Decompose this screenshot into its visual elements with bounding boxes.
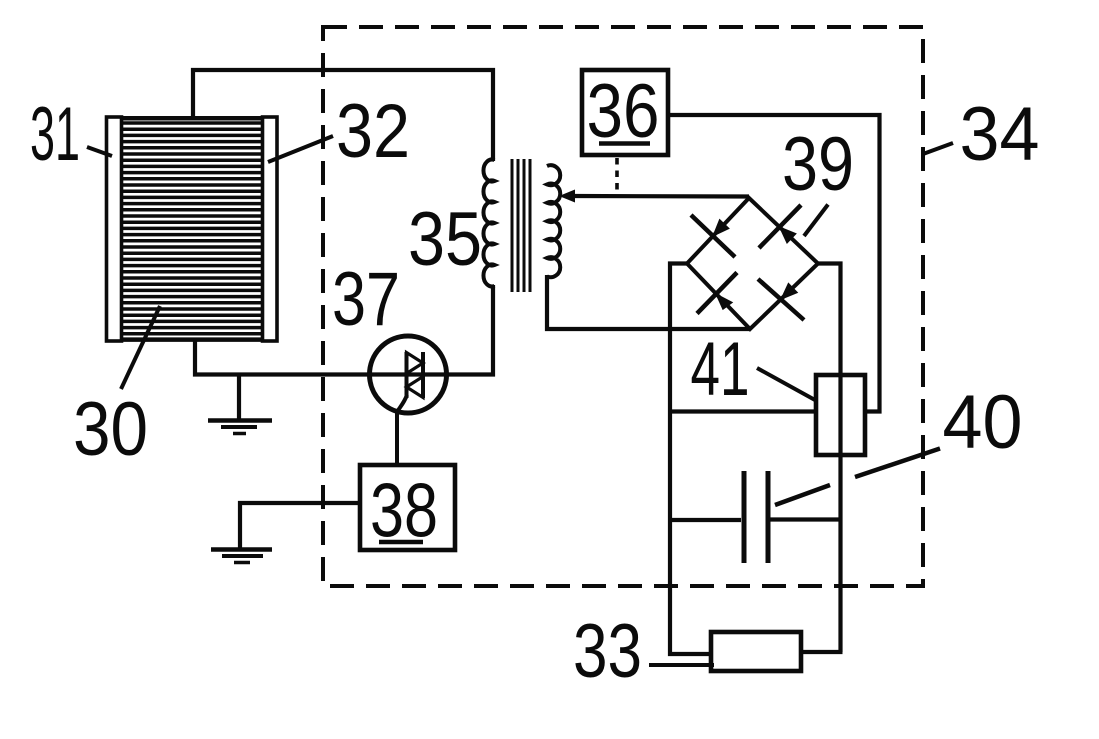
diode D4 (bridge 39 bottom-right) xyxy=(758,279,804,320)
leader for 31 xyxy=(87,147,112,156)
diode D3 (bridge 39 bottom-left) xyxy=(697,273,737,314)
svg-text:39: 39 xyxy=(782,122,854,207)
svg-text:41: 41 xyxy=(691,327,750,412)
resistor 33 xyxy=(711,632,801,671)
wire stack bottom to transistor and transformer primary bottom xyxy=(195,285,493,375)
transformer 35 primary winding xyxy=(483,160,494,287)
label 36 xyxy=(587,69,660,154)
transformer 35 core xyxy=(512,159,530,292)
ground (near box 38) xyxy=(211,550,272,563)
svg-text:31: 31 xyxy=(30,92,80,177)
wire box 36 to element 41 xyxy=(668,115,880,412)
wire secondary bottom to bridge bottom vertex xyxy=(547,275,750,329)
label 32 xyxy=(336,89,410,174)
diode D2 (bridge 39 top-right) xyxy=(759,205,801,248)
svg-text:32: 32 xyxy=(336,89,410,174)
label 38 xyxy=(370,469,438,554)
label 31 xyxy=(30,92,80,177)
tap arrow on secondary xyxy=(559,190,575,203)
leader for 39 xyxy=(804,205,828,237)
diode D1 (bridge 39 top-left) xyxy=(691,215,735,257)
label 30 xyxy=(73,387,148,472)
dashed control line from box 36 to tap xyxy=(615,158,619,194)
wire bridge right vertex down through element 41 xyxy=(818,264,841,653)
svg-text:30: 30 xyxy=(73,387,148,472)
label 40 xyxy=(943,380,1023,465)
transistor 37 (switching element) xyxy=(370,336,447,465)
capacitor 40 xyxy=(670,471,841,563)
leader for 33 xyxy=(649,663,714,667)
leader for 41 xyxy=(757,368,815,400)
bridge rectifier 39 (diamond) xyxy=(687,198,818,329)
leader for 32 xyxy=(268,136,333,162)
electrode 31 (left bar of stack) xyxy=(107,117,122,341)
wire stack top to transformer primary top xyxy=(193,70,493,161)
svg-text:33: 33 xyxy=(573,609,642,694)
electrode 32 (right bar of stack) xyxy=(263,117,278,341)
leader for 34 xyxy=(923,143,953,154)
control box 38 xyxy=(360,465,455,550)
svg-text:40: 40 xyxy=(943,380,1023,465)
label 41 xyxy=(691,327,750,412)
leader for 40 xyxy=(775,449,940,506)
element 41 (sensor box) xyxy=(816,375,865,455)
control box 36 xyxy=(582,70,668,155)
stack 30 (hatched body) xyxy=(121,118,264,339)
label 35 xyxy=(408,197,482,282)
transformer 35 secondary winding xyxy=(547,165,560,277)
wire tap to bridge top vertex xyxy=(573,194,749,199)
wire resistor right to vertical xyxy=(801,650,843,654)
wire node to element 41 left xyxy=(670,409,816,413)
wire bridge left vertex down to resistor xyxy=(670,264,711,655)
svg-text:37: 37 xyxy=(332,257,400,342)
label 39 xyxy=(782,122,854,207)
svg-text:34: 34 xyxy=(960,92,1040,177)
label 34 xyxy=(960,92,1040,177)
wire box 38 to ground xyxy=(240,503,360,548)
label 33 xyxy=(573,609,642,694)
ground (near stack) xyxy=(208,375,272,434)
label 37 xyxy=(332,257,400,342)
dashed enclosure 34 xyxy=(323,27,923,586)
svg-text:35: 35 xyxy=(408,197,482,282)
leader for 30 xyxy=(121,306,160,389)
